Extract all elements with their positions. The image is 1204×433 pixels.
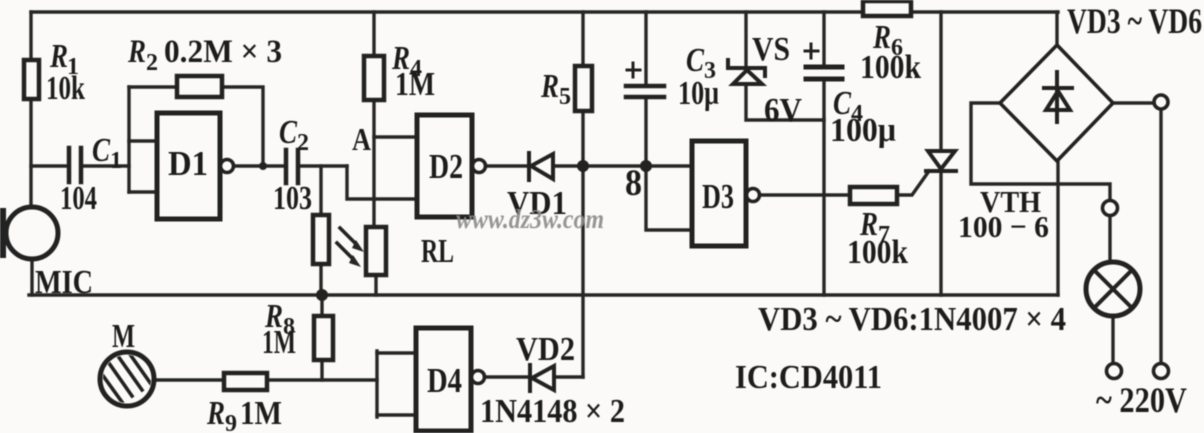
wire left rail top (bus to R1) — [29, 12, 32, 60]
wire M motor to R9 — [154, 378, 224, 381]
wire feedback left to R2 — [129, 85, 177, 88]
mains terminal right — [1154, 364, 1169, 379]
svg-text:100k: 100k — [847, 234, 908, 271]
wire R9 to D4 input — [267, 378, 377, 381]
wire C1 input branch — [31, 164, 67, 167]
resistor R2 — [177, 76, 222, 97]
wire terminal to lamp — [1108, 216, 1111, 263]
svg-text:2: 2 — [297, 130, 309, 156]
svg-text:R: R — [206, 395, 225, 432]
svg-text:VD2: VD2 — [516, 331, 575, 368]
capacitor C4 electrolytic — [806, 67, 842, 79]
svg-text:8: 8 — [625, 163, 642, 204]
wire lamp to mains terminal — [1111, 315, 1114, 363]
junction node on bottom bus — [316, 289, 328, 301]
svg-text:103: 103 — [273, 180, 312, 217]
wire node to divider resistor — [319, 166, 322, 215]
wire VD2 to R5 column — [554, 375, 583, 378]
wire C4 to bottom bus — [822, 79, 825, 295]
svg-text:MIC: MIC — [35, 264, 93, 301]
lamp symbol — [1086, 262, 1140, 316]
wire bridge right vertex to terminal — [1113, 101, 1154, 104]
resistor R5 — [575, 66, 592, 111]
wire MIC to bottom bus — [30, 259, 33, 295]
gate D4 — [416, 328, 471, 431]
wire bus to R4 — [372, 12, 375, 56]
svg-text:R: R — [127, 34, 146, 70]
svg-text:D2: D2 — [429, 147, 463, 186]
wire VTH cathode to bottom bus — [939, 172, 942, 295]
svg-text:100 − 6: 100 − 6 — [958, 209, 1049, 244]
wire bridge bottom to bottom bus — [1056, 161, 1059, 295]
microphone MIC — [6, 207, 58, 259]
gate D3 — [692, 141, 746, 246]
capacitor C2 — [286, 150, 298, 183]
wire left rail (R1 to C1 tap to MIC) — [29, 99, 32, 207]
zener diode VS — [728, 60, 765, 84]
wire D4 upper input stub — [377, 351, 416, 354]
svg-text:0.2M × 3: 0.2M × 3 — [164, 34, 282, 70]
wire bus to VTH anode — [939, 12, 942, 151]
wire VS to C4 line — [746, 84, 824, 120]
C3 plus sign — [627, 63, 640, 77]
junction node 8 — [640, 160, 652, 172]
wire D1 lower input stub — [129, 190, 157, 193]
gate D3 output bubble — [747, 189, 760, 202]
svg-text:C: C — [279, 114, 297, 151]
svg-text:10μ: 10μ — [678, 75, 719, 112]
diode VD1 — [529, 153, 553, 180]
wire D2 output to VD1 — [486, 164, 528, 167]
wire R8 to D4 input line — [320, 360, 323, 380]
mains terminal left — [1107, 364, 1122, 379]
svg-text:M: M — [112, 318, 135, 355]
wire VD1 to R5 node — [554, 164, 583, 167]
motor M hatched circle — [96, 336, 163, 406]
wire D4 lower input stub — [377, 413, 416, 416]
capacitor C1 — [69, 148, 81, 182]
terminal circle at bridge right — [1154, 95, 1168, 109]
wire D1 output to C2 — [234, 164, 284, 167]
svg-text:1M: 1M — [240, 395, 282, 432]
wire R4 to node A to RL — [372, 100, 375, 227]
svg-text:6V: 6V — [764, 92, 802, 129]
resistor R6 — [863, 1, 911, 16]
wire jog down to D2 lower input — [347, 166, 417, 199]
wire bus to R8 — [320, 295, 323, 316]
wire node to node 8 — [583, 164, 692, 167]
bridge inner diode — [1044, 72, 1072, 122]
resistor (divider under C2 node) — [313, 215, 329, 264]
light arrows into RL — [337, 228, 356, 259]
resistor R9 — [224, 373, 267, 390]
svg-text:D1: D1 — [168, 144, 208, 183]
wire divider resistor to bus — [319, 264, 322, 295]
wire C2 out to jog — [301, 164, 347, 167]
wire C1 to D1 inputs — [83, 164, 129, 167]
wire C3 to node 8 — [644, 97, 647, 166]
svg-text:VS: VS — [752, 31, 790, 68]
svg-text:1: 1 — [110, 148, 122, 174]
capacitor C3 electrolytic — [626, 86, 664, 97]
svg-text:100μ: 100μ — [830, 112, 896, 149]
gate D1 — [157, 113, 220, 219]
wire bus to R5 — [581, 12, 584, 66]
wire D1 upper input stub — [129, 139, 157, 142]
wire D4 output to VD2 — [486, 375, 528, 378]
gate D1 output bubble — [221, 160, 234, 173]
wire R2 to output drop — [222, 87, 263, 166]
svg-text:C: C — [92, 132, 110, 169]
wire D3 output to R7 — [761, 193, 850, 196]
svg-text:A: A — [352, 121, 371, 157]
resistor R1 — [24, 60, 39, 99]
svg-text:IC:CD4011: IC:CD4011 — [735, 359, 882, 396]
wire bus to zener VS — [744, 12, 747, 67]
wire bus corner to bridge top — [1055, 12, 1058, 45]
junction node VD1/R5 — [577, 160, 589, 172]
resistor R4 — [364, 56, 384, 100]
svg-text:D3: D3 — [702, 177, 734, 216]
wire node A stub to D2 upper input — [374, 135, 417, 138]
C4 plus sign — [805, 44, 818, 58]
svg-text:www.dz3w.com: www.dz3w.com — [456, 204, 604, 234]
svg-text:VD3 ~ VD6: VD3 ~ VD6 — [1067, 1, 1202, 41]
svg-text:R: R — [540, 68, 559, 105]
gate D2 — [417, 115, 472, 217]
wire R7 to VTH gate — [897, 171, 929, 195]
gate D4 output bubble — [472, 371, 485, 384]
wire R5 down through node to VD2 — [581, 111, 584, 377]
wire D1 input tie vertical — [127, 87, 130, 192]
wire right mains drop — [1159, 110, 1162, 363]
wire top supply bus — [31, 10, 1058, 13]
svg-text:5: 5 — [559, 84, 571, 110]
terminal circle above lamp — [1103, 201, 1118, 216]
wire bottom ground bus — [29, 293, 1058, 296]
svg-text:2: 2 — [146, 50, 158, 76]
svg-text:C: C — [686, 42, 704, 79]
svg-text:9: 9 — [225, 411, 237, 433]
thyristor VTH — [926, 151, 956, 171]
bridge rectifier VD3-VD6 diamond — [1000, 45, 1113, 161]
svg-text:1N4148 × 2: 1N4148 × 2 — [480, 393, 625, 430]
svg-text:~ 220V: ~ 220V — [1096, 380, 1187, 420]
svg-text:1M: 1M — [262, 324, 296, 361]
wire D4 input tie vertical — [375, 351, 378, 417]
svg-text:1M: 1M — [395, 66, 435, 103]
wire bus to C3 — [644, 12, 647, 85]
svg-text:RL: RL — [421, 233, 454, 270]
junction node at feedback/output — [259, 162, 267, 170]
svg-text:10k: 10k — [46, 70, 85, 107]
diode VD2 — [530, 365, 554, 391]
svg-text:104: 104 — [60, 180, 97, 217]
gate D2 output bubble — [473, 160, 486, 173]
svg-text:D4: D4 — [427, 361, 462, 400]
wire node 8 to D3 lower input — [646, 166, 692, 230]
svg-text:VD3 ~ VD6:1N4007 × 4: VD3 ~ VD6:1N4007 × 4 — [758, 301, 1066, 338]
svg-text:100k: 100k — [860, 49, 921, 86]
wire RL to bottom bus — [374, 275, 377, 295]
resistor R8 — [314, 316, 333, 360]
photoresistor RL — [366, 227, 386, 275]
wire bus to C4 — [822, 12, 825, 67]
resistor R7 — [850, 187, 897, 204]
wire bridge left vertex loop to lamp branch — [971, 103, 1110, 201]
